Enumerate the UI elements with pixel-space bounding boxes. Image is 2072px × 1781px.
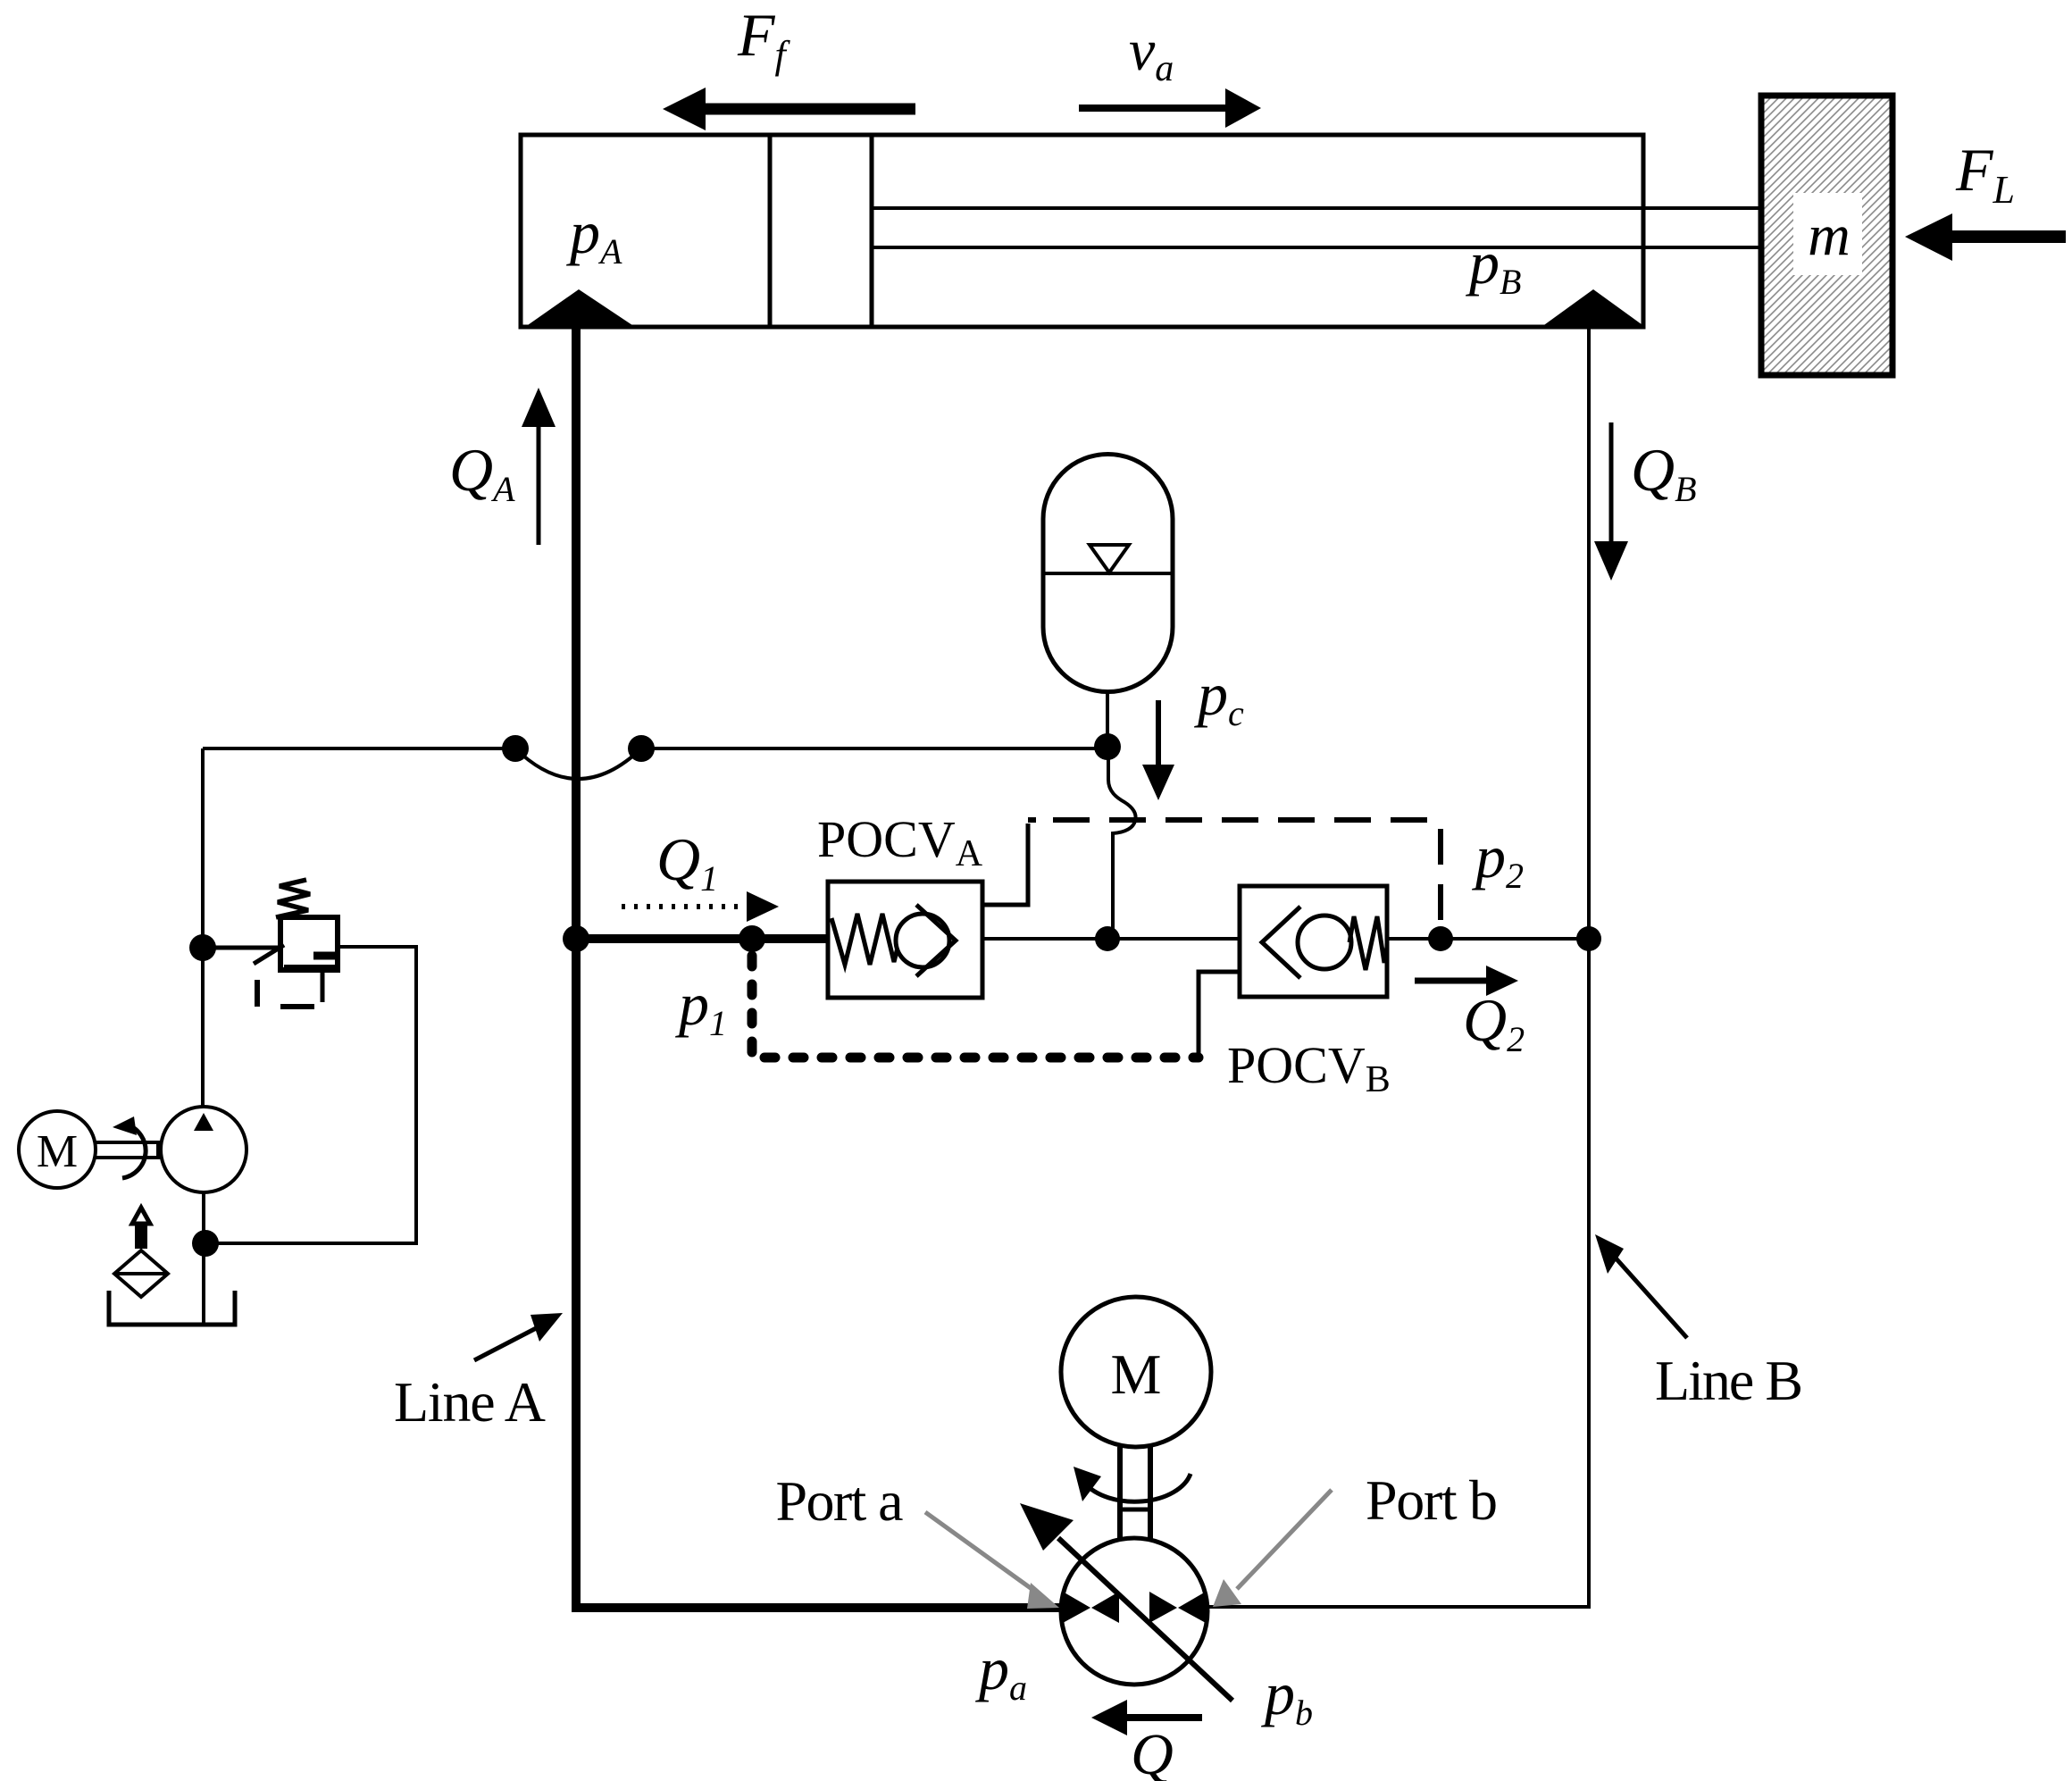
wire main line POCVB to Line B — [1387, 937, 1589, 941]
Ff arrow — [689, 104, 915, 115]
Line B callout arrow — [1612, 1254, 1687, 1338]
junction dot pump inlet — [192, 1230, 219, 1257]
wire dashed pilot p2 — [1028, 817, 1036, 823]
rotation arrow (charge) — [122, 1125, 146, 1178]
junction dot left of hop — [502, 735, 529, 762]
charge pump — [161, 1107, 246, 1192]
wire Line B (thin) — [1209, 327, 1589, 1607]
Line A callout arrow — [474, 1325, 543, 1360]
rotation arrow (main) — [1084, 1474, 1191, 1501]
svg-text:m: m — [1808, 203, 1851, 268]
POCV_A valve — [828, 824, 1028, 998]
junction dot at accumulator — [1094, 733, 1121, 760]
QB arrow — [1609, 422, 1614, 556]
wire charge pump discharge — [201, 748, 205, 1108]
wire relief valve return — [214, 947, 416, 1243]
svg-text:Port b: Port b — [1366, 1468, 1498, 1532]
svg-text:M: M — [37, 1126, 78, 1177]
wire main line POCVA to POCVB — [982, 937, 1240, 941]
node dot before POCVA — [739, 925, 765, 952]
svg-text:M: M — [1111, 1342, 1162, 1406]
va arrow — [1079, 105, 1237, 112]
wire Line A (thick) — [576, 295, 1063, 1608]
mass m block — [1761, 96, 1892, 375]
POCV_B valve — [1199, 886, 1387, 1058]
svg-text:Line A: Line A — [394, 1370, 546, 1434]
junction dot at relief inlet — [189, 934, 216, 961]
wire charge line to accumulator junction — [203, 747, 1107, 750]
Port b callout arrow — [1237, 1490, 1332, 1589]
piston — [768, 135, 773, 327]
main pump motor M — [1061, 1297, 1211, 1447]
wire main line segment A (thick) — [576, 934, 828, 943]
Q1 dotted arrow — [622, 904, 747, 909]
filter — [114, 1208, 168, 1297]
junction dot right of hop — [628, 735, 655, 762]
port A arrow — [525, 289, 635, 327]
port B arrow — [1541, 289, 1645, 327]
Port a callout arrow — [925, 1512, 1040, 1595]
motor M (charge) — [19, 1111, 96, 1188]
node dot between valves — [1095, 926, 1120, 951]
node p1 junction on Line A — [563, 925, 589, 952]
relief valve — [203, 880, 338, 1007]
node dot on Line B — [1576, 926, 1601, 951]
QA arrow — [537, 413, 541, 545]
wire hop over Line A — [515, 748, 641, 779]
tank — [109, 1291, 235, 1325]
pump shaft — [1117, 1447, 1123, 1539]
main pump — [1020, 1503, 1232, 1701]
cylinder body — [521, 135, 1643, 327]
Q2 arrow — [1415, 978, 1493, 984]
svg-text:Q: Q — [1131, 1722, 1174, 1781]
shaft — [96, 1141, 161, 1144]
svg-text:Line B: Line B — [1655, 1349, 1803, 1412]
svg-text:Port a: Port a — [776, 1469, 904, 1533]
accumulator — [1043, 455, 1173, 692]
wire thick dotted pilot p1 — [752, 956, 1199, 1058]
pc arrow — [1156, 700, 1161, 770]
wire accumulator to junction — [1106, 691, 1109, 747]
FL arrow — [1929, 230, 2066, 243]
node p2 dot right of POCVB — [1428, 926, 1453, 951]
piston rod — [872, 206, 1764, 210]
wire pump to tank — [202, 1192, 205, 1325]
wire accumulator junction down with hop over pilot line — [1108, 747, 1136, 939]
Q arrow — [1118, 1714, 1202, 1721]
